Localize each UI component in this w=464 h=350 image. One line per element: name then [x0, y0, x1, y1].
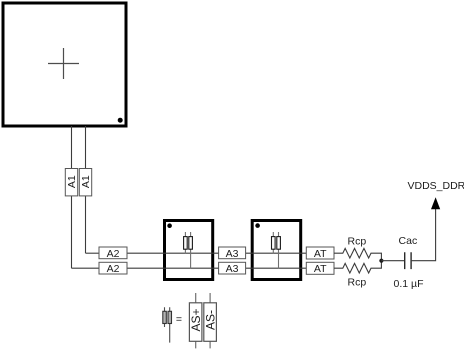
net label A3 (upper): [219, 247, 246, 260]
svg-text:0.1 µF: 0.1 µF: [394, 278, 424, 290]
svg-text:A1: A1: [66, 175, 78, 188]
wire (lower bus A3 to AT through J2): [246, 267, 307, 269]
wire (junction to Cac): [381, 260, 404, 262]
capacitor Cac: [405, 252, 411, 269]
legend pin AS-: [203, 293, 217, 348]
svg-text:A1: A1: [80, 175, 92, 188]
wire (upper bus bend to A2): [86, 252, 100, 254]
svg-text:Cac: Cac: [399, 235, 418, 247]
wire (left vertical drop from U1 to lower bus): [71, 126, 73, 268]
connector block J1 (outline): [165, 221, 213, 280]
processor U1 pin-A1 corner dot: [118, 118, 123, 123]
svg-text:AS-: AS-: [203, 310, 217, 330]
wire (lower bus A2 to A3 through J1): [127, 267, 219, 269]
svg-text:AT: AT: [314, 263, 327, 275]
svg-text:A2: A2: [107, 248, 120, 260]
svg-text:AS+: AS+: [189, 308, 203, 331]
J2 series terminator pins AS+/AS- (symbol): [272, 232, 281, 268]
svg-text:A3: A3: [226, 248, 239, 260]
connector block J1 pin-1 dot: [167, 223, 172, 228]
svg-text:VDDS_DDR: VDDS_DDR: [408, 180, 464, 192]
wire (lower bus bend to A2): [72, 267, 100, 269]
connector block J2 (outline): [252, 221, 301, 280]
connector block J2 pin-1 dot: [255, 223, 260, 228]
net label AT (upper): [306, 247, 334, 260]
wire (upper bus A2 to A3 through J1): [127, 252, 219, 254]
svg-text:Rcp: Rcp: [348, 276, 367, 288]
wire (right vertical drop from U1 to upper bus): [85, 126, 87, 253]
junction node dot: [379, 259, 383, 263]
svg-text:A2: A2: [107, 263, 120, 275]
net label A2 (lower): [99, 262, 127, 275]
resistor Rcp (lower): [334, 261, 381, 273]
svg-text:=: =: [176, 313, 182, 325]
svg-text:Rcp: Rcp: [348, 235, 367, 247]
net label AT (lower): [306, 262, 334, 275]
legend symbol (series pin pair): [163, 307, 172, 342]
J1 series terminator pins AS+/AS- (symbol): [184, 232, 193, 268]
net label A1 (right): [79, 169, 92, 196]
power arrow VDDS_DDR: [431, 197, 440, 209]
svg-text:AT: AT: [314, 248, 327, 260]
legend pin AS+: [189, 293, 203, 348]
processor U1 (BGA package outline): [3, 3, 126, 126]
net label A2 (upper): [99, 247, 127, 260]
processor U1 center crosshair: [48, 48, 79, 79]
resistor Rcp (upper): [334, 248, 381, 260]
wire (upper bus A3 to AT through J2): [246, 252, 307, 254]
svg-text:A3: A3: [226, 263, 239, 275]
wire (Cac to supply riser): [411, 209, 436, 261]
net label A1 (left): [65, 169, 78, 196]
net label A3 (lower): [219, 262, 246, 275]
